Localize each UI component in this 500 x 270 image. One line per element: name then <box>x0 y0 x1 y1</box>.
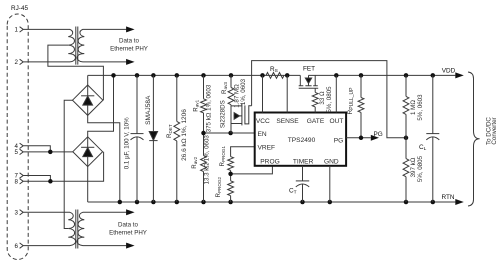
pin 1 of RJ-45 <box>15 27 24 34</box>
svg-text:Rav2: Rav2 <box>191 156 198 168</box>
wire T2 center tap to bridge D1 left input <box>64 100 72 228</box>
svg-text:GND: GND <box>324 158 339 165</box>
node RTN rail junction x=119.8 <box>118 200 123 205</box>
capacitor 0.1 uF input bypass <box>131 75 144 202</box>
node VDD rail junction x=137 <box>135 73 140 78</box>
svg-text:SMAJ58A: SMAJ58A <box>145 95 152 125</box>
node RTN rail junction x=203.5 <box>201 200 206 205</box>
svg-text:1%, 0603: 1%, 0603 <box>240 78 247 105</box>
svg-text:26.6 kΩ 1%, 1206: 26.6 kΩ 1%, 1206 <box>181 109 188 161</box>
svg-text:RPROG2: RPROG2 <box>215 176 222 197</box>
node VDD rail junction x=113.5 <box>111 73 116 78</box>
resistor Rav1 375 k <box>201 75 207 133</box>
svg-text:397 kΩ: 397 kΩ <box>410 157 417 177</box>
node VDD rail junction x=203.5 <box>201 73 206 78</box>
wire PROG pin to RPROG junction <box>231 166 273 174</box>
svg-text:6: 6 <box>15 243 19 250</box>
wire SENSE pin to rail <box>286 75 288 112</box>
svg-text:GATE: GATE <box>307 118 325 125</box>
node RTN rail junction x=329.8 <box>328 200 333 205</box>
svg-text:5%, 0603: 5%, 0603 <box>417 94 424 121</box>
svg-text:5%, 0805: 5%, 0805 <box>326 86 333 113</box>
wire T1 center tap to bridge D1 right input <box>48 45 104 100</box>
svg-text:VREF: VREF <box>258 145 276 152</box>
svg-text:TPS2490: TPS2490 <box>288 137 316 144</box>
node pins 7/8 junction <box>48 179 53 184</box>
svg-text:1 MΩ: 1 MΩ <box>410 100 417 115</box>
svg-text:OUT: OUT <box>330 118 344 125</box>
transistor Q2 external power FET <box>299 75 319 88</box>
svg-text:Rav3: Rav3 <box>221 82 228 94</box>
transformer T2 core <box>76 210 78 249</box>
node VDD rail junction x=153.4 <box>151 73 156 78</box>
svg-text:VDD: VDD <box>442 67 456 74</box>
wire VCC pin to rail <box>262 75 264 112</box>
svg-text:RJ-45: RJ-45 <box>11 5 28 12</box>
resistor 397 kohm <box>403 138 409 202</box>
node RPROG junction <box>228 172 233 177</box>
pin 4 of RJ-45 <box>15 143 24 150</box>
op-amp U1 TPS2490 hot-swap controller <box>255 113 346 166</box>
svg-text:RTN: RTN <box>442 194 455 201</box>
label Data to Ethernet PHY (bottom) <box>109 222 147 237</box>
svg-text:2: 2 <box>15 59 19 66</box>
node RTN rail junction x=176.8 <box>175 200 180 205</box>
node VDD rail junction x=406 <box>404 73 409 78</box>
node VDD rail junction x=262.5 <box>260 73 265 78</box>
svg-text:RDET: RDET <box>166 124 173 138</box>
svg-text:FET: FET <box>303 66 315 73</box>
svg-text:3: 3 <box>15 210 19 217</box>
svg-text:PG: PG <box>334 138 344 145</box>
svg-text:RPROG1: RPROG1 <box>219 145 226 166</box>
diode bridge D2 (spare pair rectifier) <box>73 137 103 167</box>
transistor Q1 Si2328DS <box>231 104 252 133</box>
pin 7 of RJ-45 <box>15 173 24 180</box>
wire pin7 <box>24 176 51 182</box>
resistor Rav2 13.3 k <box>201 133 207 202</box>
wire PG output <box>346 137 371 139</box>
wire VREF to RPROG1 <box>231 147 255 157</box>
pin 3 of RJ-45 <box>15 210 24 217</box>
svg-text:375 kΩ 1%, 0603: 375 kΩ 1%, 0603 <box>205 84 212 132</box>
transformer T1 left (line side) winding <box>24 29 76 62</box>
wire pin4 <box>24 146 51 152</box>
diode bridge D1 (data pair rectifier) <box>73 85 103 115</box>
svg-text:SENSE: SENSE <box>276 118 299 125</box>
node VDD rail junction x=176.8 <box>175 73 180 78</box>
node VDD rail junction x=231 <box>229 73 234 78</box>
node VDD rail junction x=361 <box>359 73 364 78</box>
svg-text:EN: EN <box>258 131 267 138</box>
svg-text:Ethernet PHY: Ethernet PHY <box>110 45 148 52</box>
resistor RPROG2 <box>228 174 234 202</box>
node RTN rail junction x=406 <box>404 200 409 205</box>
pin 2 of RJ-45 <box>15 59 24 66</box>
TVS diode SMAJ58A <box>149 75 157 202</box>
wire OUT pin to rail <box>335 75 337 112</box>
node RTN rail junction x=137 <box>135 200 140 205</box>
svg-text:Data to: Data to <box>119 37 140 44</box>
resistor RPULL_UP <box>358 75 364 137</box>
wire EN line <box>204 132 255 134</box>
transformer T2 left (line side) winding <box>24 212 76 245</box>
resistor 33 ohm gate <box>312 88 318 112</box>
svg-text:PROG: PROG <box>260 158 279 165</box>
svg-text:Ethernet PHY: Ethernet PHY <box>109 230 147 237</box>
wire bridge D1 minus output to RTN rail <box>88 115 120 202</box>
node PG / RPULL_UP junction <box>359 136 364 141</box>
svg-text:8: 8 <box>15 179 19 186</box>
node RTN rail junction x=432.8 <box>431 200 436 205</box>
wire pin8 to bridge D2 right <box>24 152 104 182</box>
svg-text:5: 5 <box>15 149 19 156</box>
wire GND pin to RTN rail <box>329 166 331 202</box>
pin 5 of RJ-45 <box>15 149 24 156</box>
node pins 4/5 junction <box>48 150 53 155</box>
svg-text:Si2328DS: Si2328DS <box>220 100 227 128</box>
node VDD rail junction x=287.2 <box>285 73 290 78</box>
wire bridge D1 plus output to VDD rail <box>87 75 89 85</box>
svg-text:1: 1 <box>15 27 19 34</box>
brace To DC/DC Converter <box>468 72 480 206</box>
resistor RPROG1 <box>228 157 234 174</box>
label Data to Ethernet PHY (top) <box>110 37 148 52</box>
wire Q1 gate to PG sense (over-the-top route) <box>252 61 406 138</box>
wire VDD rail (top) <box>88 74 456 76</box>
node RTN rail junction x=153.4 <box>151 200 156 205</box>
svg-text:13.3 kΩ 1%, 0603: 13.3 kΩ 1%, 0603 <box>203 135 210 185</box>
svg-text:PG: PG <box>374 131 383 138</box>
svg-text:Converter: Converter <box>491 117 498 144</box>
resistor RDET 26.6 k detection <box>174 75 180 202</box>
node RTN rail junction x=230.6 <box>228 200 233 205</box>
wire bridge D2 plus output to VDD rail <box>88 75 114 136</box>
wire pin5 to bridge D2 left <box>24 151 73 153</box>
node EN / divider junction <box>201 131 206 136</box>
svg-text:RPULL_UP: RPULL_UP <box>347 87 355 115</box>
node VDD rail junction x=432.8 <box>431 73 436 78</box>
node PG / divider junction <box>404 136 409 141</box>
resistor Rs current sense <box>266 73 284 79</box>
svg-text:33 Ω: 33 Ω <box>319 91 326 105</box>
pin 6 of RJ-45 <box>15 243 24 250</box>
transformer T1 right (PHY side) winding + wires to PHY arrows <box>77 29 126 62</box>
resistor Rav3 1.87 M <box>228 75 234 106</box>
wire bridge D2 minus output to RTN rail <box>87 167 89 202</box>
svg-text:TIMER: TIMER <box>293 158 314 165</box>
connector J1 RJ-45 outline <box>7 5 28 260</box>
svg-text:5%, 0805: 5%, 0805 <box>417 155 424 182</box>
pin 8 of RJ-45 <box>15 179 24 186</box>
svg-text:Rav1: Rav1 <box>192 99 199 111</box>
transformer T2 right (PHY side) winding + wires to PHY arrows <box>77 212 126 245</box>
svg-text:VCC: VCC <box>256 118 270 125</box>
node VDD rail junction x=336.3 <box>334 73 339 78</box>
svg-text:Data to: Data to <box>118 222 139 229</box>
node RTN rail junction x=302.5 <box>300 200 305 205</box>
resistor 1 Mohm <box>403 75 409 137</box>
wire RTN rail (bottom) <box>88 201 456 203</box>
node EN / Q1 junction <box>228 131 233 136</box>
capacitor CL load <box>426 75 439 202</box>
transformer T1 core <box>76 27 78 65</box>
capacitor CT timer <box>296 166 309 202</box>
svg-text:0.1 µF, 100 V, 10%: 0.1 µF, 100 V, 10% <box>124 117 131 169</box>
